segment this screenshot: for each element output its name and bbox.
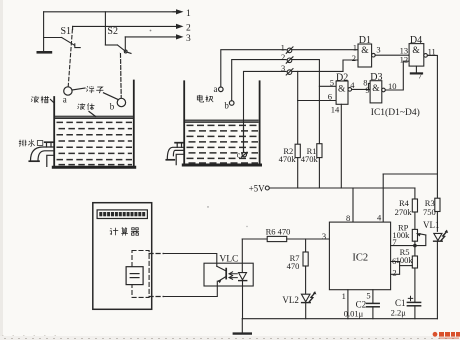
- wire line2 top: [73, 26, 179, 29]
- label R3 value: [423, 207, 436, 217]
- svg-text:S2: S2: [107, 26, 118, 37]
- IC ground pin 7 of D4: [411, 66, 422, 73]
- label IC2 pin2: [392, 268, 396, 278]
- drain faucet tank1: [29, 142, 54, 166]
- svg-text:4: 4: [350, 80, 355, 90]
- svg-text:&: &: [372, 84, 380, 94]
- svg-text:D1: D1: [359, 35, 371, 46]
- svg-text:IC2: IC2: [352, 253, 368, 264]
- label IC1(D1~D4): [371, 107, 420, 118]
- LED VL2: [301, 291, 316, 319]
- wire net1 electrode a to connector: [221, 50, 286, 87]
- junction dot RP/R5/pin7: [413, 244, 417, 248]
- arrow 1: [173, 9, 184, 14]
- svg-text:470k: 470k: [279, 154, 297, 164]
- wire net3 to D1 pin2: [343, 60, 358, 71]
- label R7: [290, 253, 300, 263]
- label D3 &: [372, 84, 380, 94]
- ground (S1 common): [38, 51, 51, 54]
- svg-text:14: 14: [331, 104, 340, 114]
- wire D1.3 to D4.13: [375, 54, 409, 56]
- wire D4.11 to IC2 pin4: [383, 174, 437, 222]
- svg-text:470: 470: [287, 261, 300, 271]
- label VLC: [219, 254, 238, 264]
- watermark (red): [433, 332, 460, 339]
- svg-text:270k: 270k: [395, 207, 413, 217]
- svg-text:S1: S1: [61, 26, 72, 37]
- tank 1 walls: [53, 81, 134, 168]
- svg-text:750: 750: [423, 207, 436, 217]
- wire net3 connector to junction: [292, 70, 343, 72]
- label C1 value: [391, 308, 407, 318]
- tank 2 walls: [183, 81, 260, 165]
- computer port dashed box: [132, 251, 149, 298]
- potentiometer RP body: [412, 229, 417, 241]
- wire D4.11 down right side: [427, 55, 437, 198]
- label IC2 pin4: [377, 213, 382, 223]
- switch S1 contact: [75, 44, 80, 48]
- label D2 pin4: [350, 80, 355, 90]
- svg-text:7: 7: [418, 71, 422, 81]
- svg-text:&: &: [361, 46, 369, 56]
- label R7 value: [287, 261, 300, 271]
- svg-text:2: 2: [392, 268, 396, 278]
- LED VL1: [434, 230, 449, 319]
- wire line1 top: [44, 11, 179, 13]
- label IC2 pin6: [392, 256, 396, 266]
- float a: [64, 87, 72, 95]
- label D3 pin9: [365, 85, 369, 95]
- computer port symbol: [126, 267, 143, 285]
- label C2: [356, 300, 367, 310]
- svg-text:8: 8: [346, 213, 350, 223]
- label D2: [336, 73, 348, 84]
- svg-text:c: c: [237, 151, 241, 160]
- optocoupler phototransistor: [217, 266, 226, 283]
- label R2: [283, 146, 293, 156]
- wire IC2 pin5 to C2: [372, 290, 374, 303]
- label D4 pin7: [418, 71, 422, 81]
- tank 2 liquid fill (dashes): [187, 125, 259, 163]
- label connector 3: [281, 63, 285, 73]
- label a (electrode): [214, 84, 218, 94]
- optocoupler LED: [239, 273, 247, 319]
- wire dashed link top: [149, 253, 163, 255]
- drain faucet tank2: [166, 143, 184, 165]
- switch S2 contact: [124, 37, 131, 54]
- label R3: [425, 198, 435, 208]
- wire net2 connector to D2 pin5: [292, 60, 336, 87]
- electrode c probe in liquid: [237, 128, 247, 160]
- connector 2: [286, 57, 293, 63]
- electrode a terminal: [219, 87, 224, 92]
- label IC2 pin3: [322, 231, 326, 241]
- optocoupler VLC box: [204, 263, 253, 286]
- wire net3 electrode c to connector: [244, 71, 287, 128]
- svg-text:2.2μ: 2.2μ: [391, 308, 407, 318]
- label D4 pin13: [400, 45, 409, 55]
- label VL1: [423, 220, 440, 230]
- wire D3.10 to D4.12: [385, 61, 409, 90]
- label D1 pin2: [352, 53, 356, 63]
- label D1 &: [361, 46, 369, 56]
- label RP value: [392, 230, 410, 240]
- wire LED anode of VLC up to R6: [241, 239, 243, 272]
- pointer to fuzi label: [72, 88, 117, 99]
- switch S1 blade: [62, 38, 75, 46]
- pointer to yeti label: [89, 112, 96, 117]
- resistor R1: [317, 86, 322, 188]
- svg-text:9: 9: [365, 85, 369, 95]
- wire line3 top: [125, 36, 179, 38]
- wire IC2 pins 2,6 tie: [391, 262, 413, 275]
- resistor R2: [295, 101, 300, 189]
- computer box: [93, 203, 152, 310]
- label D4: [410, 35, 422, 46]
- gate D2 output bubble: [348, 88, 352, 92]
- ground symbol: [234, 319, 251, 334]
- label 1: [186, 9, 191, 19]
- svg-text:1: 1: [353, 42, 357, 52]
- IC2 box: [329, 222, 390, 290]
- svg-text:0.01μ: 0.01μ: [344, 308, 364, 318]
- gate D3 output bubble: [382, 88, 386, 92]
- resistor R4: [412, 188, 417, 229]
- label R4 value: [395, 207, 413, 217]
- label R1: [307, 146, 317, 156]
- label yecao (liquid tank): [31, 96, 49, 103]
- capacitor C2: [367, 303, 380, 318]
- resistor R7: [303, 252, 308, 294]
- svg-text:IC1(D1~D4): IC1(D1~D4): [371, 107, 420, 118]
- label D4 &: [412, 46, 420, 56]
- svg-text:12: 12: [400, 54, 409, 64]
- label C1: [395, 298, 406, 308]
- label b (electrode): [224, 100, 229, 110]
- gate D3: [370, 81, 382, 103]
- label R2 value: [279, 154, 297, 164]
- svg-text:D3: D3: [370, 72, 382, 83]
- svg-text:470k: 470k: [301, 154, 319, 164]
- wire junction down to R7: [305, 239, 307, 252]
- resistor R5: [412, 256, 417, 302]
- mechanical link S2-float b (dashed): [119, 53, 122, 99]
- tank 2 liquid surface: [185, 120, 259, 122]
- tank 1 liquid surface: [55, 116, 133, 118]
- svg-text:+5V: +5V: [249, 184, 266, 194]
- label 3: [186, 34, 191, 44]
- label D1 pin1: [353, 42, 357, 52]
- svg-text:2: 2: [352, 53, 356, 63]
- wire net3 to D2 pin6: [298, 100, 336, 102]
- wire IC2 pin7: [391, 241, 415, 256]
- wire D2 pin14 down to +5V rail: [340, 104, 342, 188]
- label yeti (liquid): [78, 103, 95, 110]
- label D2 pin5: [330, 77, 334, 87]
- svg-text:b: b: [110, 101, 115, 111]
- wire dashed link bottom: [149, 296, 163, 298]
- gate D1 output bubble: [372, 53, 376, 57]
- label dianji (electrode): [197, 95, 213, 102]
- wire emitter to computer (bottom): [164, 281, 218, 296]
- label C2 value: [344, 308, 364, 318]
- potentiometer RP wiper: [415, 233, 426, 245]
- label D1 pin3: [376, 45, 380, 55]
- computer connector strip: [97, 210, 147, 219]
- label S2: [107, 26, 118, 37]
- label IC2 pin7: [392, 237, 396, 247]
- gate D1: [358, 44, 372, 67]
- label VL2: [282, 295, 299, 305]
- label fuzi (float): [86, 86, 103, 93]
- label jisuanqi (computer): [110, 227, 139, 235]
- connector 1: [286, 47, 293, 53]
- label D3: [370, 72, 382, 83]
- svg-text:11: 11: [428, 46, 436, 56]
- label connector 2: [281, 52, 285, 62]
- gate D2: [336, 81, 348, 104]
- label D4 pin12: [400, 54, 409, 64]
- svg-text:6: 6: [328, 91, 332, 101]
- svg-text:3: 3: [281, 63, 285, 73]
- arrow 2: [176, 24, 184, 29]
- svg-text:100k: 100k: [396, 255, 414, 265]
- wire R6 to IC2 pin3: [287, 238, 330, 240]
- svg-text:D2: D2: [336, 73, 348, 84]
- electrode b terminal: [229, 101, 234, 106]
- svg-text:a: a: [214, 84, 218, 94]
- label b (float): [110, 101, 115, 111]
- svg-text:3: 3: [376, 45, 380, 55]
- svg-text:2: 2: [186, 24, 191, 34]
- label IC2 pin8: [346, 213, 350, 223]
- switch S2 blade: [118, 45, 126, 52]
- label IC2 pin5: [366, 291, 370, 301]
- scan noise bottom edge: [2, 336, 455, 339]
- scan specks: [150, 30, 248, 228]
- svg-text:VL1: VL1: [423, 220, 440, 230]
- label R6 value: [266, 227, 291, 237]
- connector 3: [286, 69, 293, 75]
- wire IC2 pin3 to R6: [242, 238, 267, 240]
- label D3 pin8: [363, 77, 367, 87]
- label D3 pin10: [388, 81, 397, 91]
- label D4 pin11: [428, 46, 436, 56]
- label RP: [398, 222, 409, 232]
- svg-text:5: 5: [330, 77, 334, 87]
- wire net2 electrode b to connector: [232, 60, 287, 101]
- wire rail to IC2 pin8: [352, 188, 354, 222]
- label D2 &: [338, 85, 346, 95]
- wire net1 connector to D1 pin1: [292, 49, 358, 51]
- svg-text:VL2: VL2: [282, 295, 299, 305]
- svg-text:5: 5: [366, 291, 370, 301]
- svg-text:100k: 100k: [392, 230, 410, 240]
- wire collector to computer (top): [164, 254, 217, 267]
- wire S2 branch: [105, 12, 117, 45]
- float b: [117, 98, 125, 106]
- tank 1 liquid fill (dashes): [57, 122, 133, 164]
- gate D4: [409, 44, 424, 67]
- optocoupler light arrows: [229, 272, 237, 280]
- pointer to yecao label: [51, 100, 55, 104]
- label a (float): [63, 94, 67, 104]
- wire +5V rail: [269, 187, 415, 189]
- mechanical link S1-float a (dashed): [68, 30, 72, 87]
- svg-text:R6 470: R6 470: [266, 227, 291, 237]
- label D2 pin14: [331, 104, 340, 114]
- svg-text:10: 10: [388, 81, 397, 91]
- wire D2.4 to D3 inputs: [352, 83, 371, 89]
- arrow 3: [176, 34, 184, 39]
- label IC2 pin1: [342, 291, 346, 301]
- label paishuikou (drain): [19, 139, 43, 146]
- label R5 value: [396, 255, 414, 265]
- label D2 pin6: [328, 91, 332, 101]
- svg-text:1: 1: [186, 9, 191, 19]
- label R4: [399, 198, 410, 208]
- wire IC2 pin1 to ground rail: [347, 290, 349, 319]
- +5V terminal: [265, 186, 269, 190]
- wire ground rail bottom: [242, 318, 437, 320]
- label IC2: [352, 253, 368, 264]
- svg-text:1: 1: [342, 291, 346, 301]
- svg-text:&: &: [412, 46, 420, 56]
- svg-text:3: 3: [322, 231, 326, 241]
- svg-text:a: a: [63, 94, 67, 104]
- label 2: [186, 24, 191, 34]
- svg-text:VLC: VLC: [219, 254, 238, 264]
- svg-text:D4: D4: [410, 35, 422, 46]
- label R5: [400, 247, 410, 257]
- resistor R3: [435, 198, 440, 231]
- wire net3 branch down: [297, 71, 299, 100]
- label +5V: [249, 184, 266, 194]
- svg-text:2: 2: [281, 52, 285, 62]
- label D1: [359, 35, 371, 46]
- switch S1 pole wire: [44, 12, 62, 52]
- label connector 1: [281, 42, 285, 52]
- capacitor C1: [407, 296, 420, 319]
- svg-text:b: b: [224, 100, 229, 110]
- label S1: [61, 26, 72, 37]
- label R1 value: [301, 154, 319, 164]
- svg-text:&: &: [338, 85, 346, 95]
- svg-text:3: 3: [186, 34, 191, 44]
- resistor R6: [267, 236, 287, 241]
- gate D4 output bubble: [424, 54, 428, 58]
